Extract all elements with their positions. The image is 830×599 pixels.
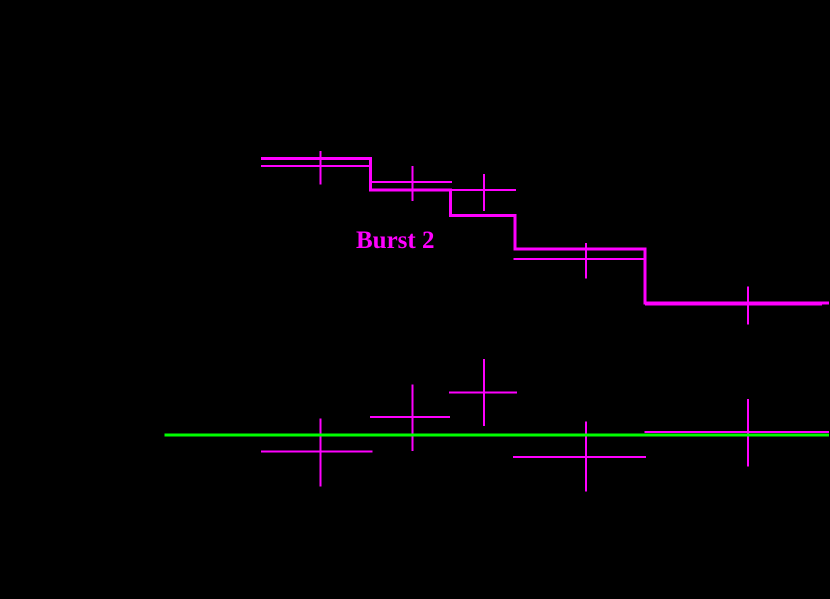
- data point 3 bin-width bar (upper panel): [450, 189, 517, 191]
- zero-residual reference line (green): [164, 434, 829, 437]
- residual point 4 bin-width bar (lower panel): [513, 456, 646, 458]
- data point 1 bin-width bar (upper panel): [261, 165, 372, 167]
- model step down bin4/bin5: [644, 248, 647, 304]
- residual point 4 error bar: [585, 422, 587, 492]
- residual point 1 bin-width bar (lower panel): [261, 451, 373, 453]
- model step down bin3/bin4: [514, 214, 517, 249]
- data point 5 error bar: [747, 287, 749, 325]
- data point 1 error bar: [319, 151, 321, 185]
- model histogram step bin1 (upper panel): [261, 157, 371, 160]
- model step down bin1/bin2: [369, 157, 372, 190]
- model step down bin2/bin3: [449, 189, 452, 216]
- model histogram step bin4: [514, 248, 646, 251]
- data point 2 bin-width bar (upper panel): [372, 181, 452, 183]
- data point 2 error bar: [411, 166, 413, 201]
- residual point 3 bin-width bar (lower panel): [449, 392, 517, 394]
- data point 4 error bar: [585, 243, 587, 279]
- residual point 5 bin-width bar (lower panel): [645, 431, 830, 433]
- data point 5 bin-width bar (upper panel): [645, 304, 822, 306]
- model histogram step bin3: [449, 214, 515, 217]
- data point 4 bin-width bar (upper panel): [514, 258, 646, 260]
- data point 3 error bar: [483, 174, 485, 211]
- svg-text:Burst 2: Burst 2: [356, 227, 434, 254]
- residual point 2 bin-width bar (lower panel): [370, 416, 450, 418]
- residual point 2 error bar: [411, 384, 413, 451]
- residual point 1 error bar: [319, 418, 321, 486]
- model histogram step bin2: [369, 189, 451, 192]
- residual point 5 error bar: [747, 399, 749, 467]
- residual point 3 error bar: [483, 359, 485, 426]
- model histogram step bin5: [644, 302, 830, 305]
